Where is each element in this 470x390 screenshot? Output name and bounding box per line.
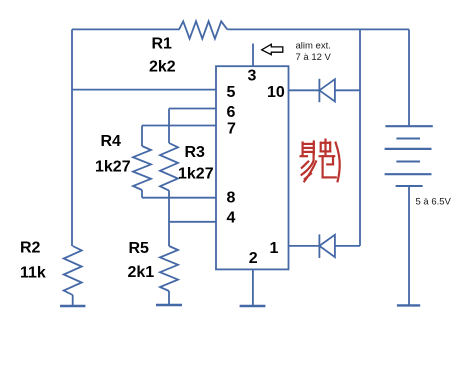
- svg-text:8: 8: [227, 190, 236, 207]
- svg-text:1: 1: [270, 240, 279, 257]
- svg-text:1k27: 1k27: [178, 166, 214, 183]
- svg-text:2k1: 2k1: [128, 264, 155, 281]
- resistor R1: [179, 21, 227, 38]
- wire: R4 bottom stub: [141, 190, 143, 198]
- ground (battery minus): [397, 304, 420, 306]
- wire: R3 bottom to R5 vertical: [168, 190, 170, 246]
- svg-text:2k2: 2k2: [149, 59, 176, 76]
- wire: pin 4: [169, 221, 216, 223]
- wire: left rail: [71, 29, 73, 246]
- wire: R2 bottom stub: [72, 295, 74, 306]
- wire: pin 1 to diode: [289, 245, 361, 247]
- wire: pin 7: [142, 125, 216, 127]
- svg-text:R4: R4: [101, 133, 122, 150]
- wire: top rail right of R1: [227, 28, 409, 30]
- svg-text:6: 6: [227, 104, 236, 121]
- wire: pin 8: [142, 197, 216, 199]
- svg-text:11k: 11k: [20, 265, 46, 282]
- resistor R2: [64, 246, 82, 295]
- wire: R4 top vertical: [141, 126, 143, 147]
- svg-text:3: 3: [248, 67, 257, 84]
- svg-text:5: 5: [227, 84, 236, 101]
- wire: right rail to battery: [408, 29, 410, 126]
- wire: pin 6: [169, 108, 216, 110]
- svg-text:1k27: 1k27: [95, 159, 131, 176]
- ground (R2): [60, 305, 85, 307]
- resistor R4: [133, 146, 151, 190]
- wire: pin 10 to diode: [289, 89, 361, 91]
- resistor R3: [160, 143, 178, 191]
- ground (R5): [156, 304, 182, 306]
- svg-text:R3: R3: [185, 144, 206, 161]
- diode D1 (pin 10): [319, 79, 335, 102]
- svg-text:7: 7: [227, 120, 236, 137]
- svg-text:10: 10: [267, 84, 285, 101]
- ground (pin 2): [240, 305, 266, 307]
- arrow: alim ext input: [262, 44, 283, 55]
- svg-text:5 à 6.5V: 5 à 6.5V: [416, 196, 452, 207]
- svg-text:R2: R2: [20, 240, 41, 257]
- resistor R5: [160, 246, 178, 291]
- svg-text:7 à 12 V: 7 à 12 V: [296, 52, 332, 63]
- svg-text:R5: R5: [129, 240, 150, 257]
- seal: red stamp: [301, 140, 340, 182]
- wire: R5 bottom stub: [168, 291, 170, 305]
- IC U1: [216, 66, 289, 269]
- wire: mid-right vertical: [359, 29, 361, 246]
- diode D2 (pin 1): [319, 234, 335, 258]
- wire: battery bottom lead: [408, 186, 410, 305]
- wire: pin 3 stub: [252, 44, 254, 67]
- svg-text:R1: R1: [152, 36, 173, 53]
- svg-text:alim ext.: alim ext.: [296, 41, 331, 52]
- wire: top rail left of R1: [72, 28, 180, 30]
- wire: pin 5: [72, 89, 216, 91]
- svg-text:2: 2: [249, 250, 258, 267]
- svg-text:4: 4: [227, 209, 236, 226]
- battery BT1: [385, 126, 433, 186]
- wire: pin 2 stub: [252, 269, 254, 306]
- wire: R3 top vertical: [168, 109, 170, 144]
